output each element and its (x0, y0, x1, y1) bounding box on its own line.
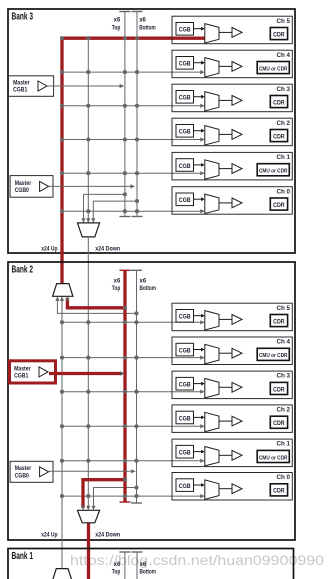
label x24 Up bank2 (41, 532, 57, 538)
svg-text:x6: x6 (114, 278, 121, 284)
label x6 Top bank2 (112, 278, 121, 292)
svg-text:CMU or CDR: CMU or CDR (259, 455, 288, 461)
wire CGB-to-mux Ch 5 bank2 (194, 314, 205, 318)
svg-text:CGB: CGB (179, 62, 192, 68)
wire x6top-to-downmux (red) bank2 (81, 480, 125, 511)
wire CGB-to-mux Ch 2 bank3 (194, 129, 205, 133)
svg-text:x6: x6 (139, 18, 146, 24)
channel Ch 3 bank2 box (172, 371, 292, 399)
label Ch 4 bank3 (277, 52, 291, 59)
svg-text:Ch 5: Ch 5 (277, 18, 291, 25)
wire x6 feed Ch 1 bank3 (62, 171, 205, 175)
CGB Ch 4 bank3 (176, 57, 194, 70)
wire CGB-to-mux Ch 4 bank2 (194, 348, 205, 352)
wire x6 Bottom bank1 (132, 552, 143, 579)
wire x6 feed Ch 0 bank3 (62, 209, 205, 213)
svg-text:CGB: CGB (179, 416, 192, 422)
channel Ch 4 bank3 box (172, 50, 292, 77)
svg-text:CMU or CDR: CMU or CDR (259, 169, 288, 175)
label x6 Bottom bank3 (139, 18, 156, 32)
channel Ch 1 bank3 box (172, 152, 292, 180)
wire mux-to-buffer Ch 0 bank2 (219, 488, 232, 490)
svg-text:https://blog.csdn.net/huan0990: https://blog.csdn.net/huan09900990 (70, 552, 324, 568)
svg-text:Master: Master (14, 365, 31, 372)
CGB Ch 1 bank2 (176, 445, 194, 458)
mux Ch 1 bank2 (205, 447, 219, 466)
svg-text:Ch 4: Ch 4 (277, 339, 291, 346)
buffer Ch 2 bank2 (232, 416, 242, 426)
CDR Ch 5 bank3 (270, 28, 287, 40)
svg-text:CGB: CGB (179, 198, 192, 204)
CGB Ch 1 bank3 (176, 159, 194, 172)
channel Ch 0 bank3 box (172, 187, 292, 215)
wire x6 feed Ch 2 bank3 (62, 137, 205, 141)
wire x24 down feeder bank3 (86, 38, 90, 223)
CDR Ch 0 bank3 (270, 198, 287, 210)
svg-text:Ch 3: Ch 3 (277, 373, 291, 380)
buffer Ch 4 bank3 (232, 62, 242, 72)
svg-text:Master: Master (15, 180, 32, 187)
svg-text:Bottom: Bottom (139, 26, 156, 32)
bank 2 title (12, 264, 34, 275)
label Ch 1 bank3 (277, 154, 291, 161)
svg-text:Top: Top (112, 286, 121, 292)
wire x6 feed Ch 2 bank2 (62, 424, 205, 428)
mux Ch 2 bank3 (205, 126, 219, 145)
channel Ch 0 bank2 box (172, 473, 292, 501)
wire CGB-to-mux Ch 4 bank3 (194, 61, 205, 65)
wire mux-to-buffer Ch 4 bank3 (219, 65, 232, 67)
svg-text:CGB1: CGB1 (13, 87, 28, 94)
buffer Ch 1 bank2 (232, 450, 242, 460)
svg-text:CGB: CGB (179, 28, 192, 34)
channel Ch 2 bank3 box (172, 118, 292, 146)
buffer Ch 2 bank3 (232, 130, 242, 140)
svg-text:Ch 2: Ch 2 (277, 407, 291, 414)
svg-text:CDR: CDR (273, 421, 285, 427)
bank 1 title (12, 551, 34, 562)
mux x24 up bank1 (clipped) (52, 569, 72, 579)
svg-text:Bottom: Bottom (140, 286, 157, 292)
svg-text:Top: Top (112, 570, 121, 576)
label x24 Down bank3 (95, 246, 120, 252)
svg-text:x24 Down: x24 Down (95, 246, 120, 252)
svg-text:CDR: CDR (273, 134, 285, 140)
mux Ch 5 bank2 (205, 311, 219, 330)
mux Ch 5 bank3 (205, 24, 219, 43)
channel Ch 4 bank2 box (172, 337, 292, 365)
mux Ch 4 bank3 (205, 58, 219, 77)
svg-text:CMU or CDR: CMU or CDR (259, 353, 288, 359)
wire mux-to-buffer Ch 3 bank3 (219, 99, 232, 101)
svg-text:CGB: CGB (179, 164, 192, 170)
svg-text:x24 Up: x24 Up (41, 246, 57, 252)
label x24 Up bank3 (41, 246, 57, 252)
mux Ch 3 bank3 (205, 92, 219, 111)
buffer Ch 0 bank2 (232, 484, 242, 494)
CDR Ch 3 bank2 (270, 382, 287, 394)
svg-text:CDR: CDR (273, 32, 285, 38)
svg-text:CGB: CGB (179, 451, 192, 457)
wire x6bottom-to-upmux bank2 (55, 296, 136, 313)
CGB Ch 3 bank3 (176, 91, 194, 104)
svg-text:x24 Up: x24 Up (41, 532, 57, 538)
mux Ch 0 bank3 (205, 194, 219, 213)
mux x24 up bank2 (53, 284, 73, 297)
wire mux-to-buffer Ch 3 bank2 (219, 386, 232, 388)
CDR Ch 2 bank2 (270, 416, 287, 428)
CGB Ch 2 bank2 (176, 411, 194, 424)
mux Ch 3 bank2 (205, 379, 219, 398)
wire x6 feed Ch 1 bank2 (62, 459, 205, 463)
buffer Ch 3 bank3 (232, 96, 242, 106)
wire x6 feed Ch 3 bank3 (62, 104, 205, 108)
svg-text:x6: x6 (114, 18, 121, 24)
mux Ch 2 bank2 (205, 412, 219, 431)
wire CGB-to-mux Ch 0 bank2 (194, 483, 205, 487)
svg-text:CDR: CDR (273, 489, 285, 495)
label Ch 0 bank3 (277, 188, 291, 195)
wire x24 down output bank3-to-bank2 (86, 237, 90, 510)
mux Ch 4 bank2 (205, 344, 219, 363)
svg-text:CGB1: CGB1 (14, 373, 29, 380)
svg-text:CDR: CDR (273, 387, 285, 393)
CMU or CDR Ch 4 bank2 (257, 348, 289, 360)
CGB Ch 2 bank3 (176, 125, 194, 138)
CGB Ch 4 bank2 (176, 343, 194, 356)
buffer Ch 5 bank3 (232, 28, 242, 38)
CDR Ch 2 bank3 (270, 130, 287, 142)
wire CGB0 arrow bank2 (49, 469, 136, 473)
wire CGB0 arrow bank3 (49, 184, 135, 188)
CDR Ch 3 bank3 (270, 96, 287, 108)
svg-text:Ch 4: Ch 4 (277, 52, 291, 59)
wire x6 feed Ch 3 bank2 (62, 390, 205, 394)
wire x6 Bottom bank3 (132, 12, 143, 217)
wire x24 up feeder bank2-to-bank1 (60, 296, 64, 568)
svg-text:CGB: CGB (179, 315, 192, 321)
wire mux-to-buffer Ch 2 bank3 (219, 133, 232, 135)
CDR Ch 0 bank2 (270, 484, 287, 496)
label Ch 5 bank3 (277, 18, 291, 25)
master CGB1 bank2 (red highlighted) (10, 361, 56, 383)
wire CGB-to-mux Ch 3 bank3 (194, 95, 205, 99)
svg-text:Ch 3: Ch 3 (277, 86, 291, 93)
junction dots bank3 (60, 36, 139, 213)
wire x6 feed Ch 4 bank3 (62, 70, 205, 74)
svg-text:x24 Down: x24 Down (95, 532, 120, 538)
mux x24 down bank2 (78, 510, 100, 523)
CGB Ch 0 bank2 (176, 479, 194, 492)
wire x6 Bottom bank2 (131, 270, 142, 503)
CGB Ch 0 bank3 (176, 193, 194, 206)
buffer Ch 3 bank2 (232, 382, 242, 392)
channel Ch 3 bank3 box (172, 84, 292, 112)
wire x24 down output (red) bank2-to-bank1 (87, 523, 90, 579)
junction dots bank2 (60, 306, 139, 498)
wire x6 feed Ch 0 bank2 (62, 494, 205, 498)
svg-text:Bank 1: Bank 1 (12, 551, 34, 562)
label Ch 2 bank3 (277, 120, 291, 127)
bank 1 border (8, 549, 294, 579)
wire x6top-to-upmux (red) bank2 (65, 296, 125, 308)
wire CGB-to-mux Ch 0 bank3 (194, 197, 205, 201)
wire CGB-to-mux Ch 5 bank3 (194, 27, 205, 31)
svg-text:CDR: CDR (273, 319, 285, 325)
svg-text:x6: x6 (114, 562, 121, 568)
svg-text:CDR: CDR (273, 100, 285, 106)
buffer Ch 0 bank3 (232, 198, 242, 208)
CGB Ch 5 bank2 (176, 310, 194, 323)
label Ch 1 bank2 (277, 441, 291, 448)
wire x6 Top bank1 (119, 552, 130, 579)
wire x6 Top (red highlighted) bank2 (120, 270, 131, 502)
bank 3 border (8, 9, 295, 253)
wire x6 feed Ch 5 bank2 (62, 320, 205, 324)
wire mux-to-buffer Ch 1 bank3 (219, 168, 232, 170)
watermark (70, 552, 324, 568)
svg-text:Bottom: Bottom (140, 570, 157, 576)
wire x6 feed Ch 4 bank2 (62, 356, 205, 360)
svg-text:Ch 5: Ch 5 (277, 305, 291, 312)
buffer Ch 4 bank2 (232, 348, 242, 358)
svg-text:CGB: CGB (179, 96, 192, 102)
svg-text:CMU or CDR: CMU or CDR (259, 66, 288, 72)
svg-text:Ch 1: Ch 1 (277, 441, 291, 448)
wire x6top-to-mux bank3 (81, 194, 125, 223)
label Ch 2 bank2 (277, 407, 291, 414)
label x6 Bottom bank2 (140, 278, 157, 292)
CMU or CDR Ch 1 bank2 (257, 450, 289, 462)
svg-text:CGB: CGB (179, 383, 192, 389)
label Ch 3 bank2 (277, 373, 291, 380)
label Ch 3 bank3 (277, 86, 291, 93)
svg-text:Ch 2: Ch 2 (277, 120, 291, 127)
svg-text:x6: x6 (140, 278, 147, 284)
svg-text:Master: Master (15, 465, 32, 472)
label Ch 0 bank2 (277, 474, 291, 481)
svg-text:Bank 3: Bank 3 (12, 11, 34, 22)
svg-text:CGB0: CGB0 (15, 472, 30, 479)
svg-text:CGB0: CGB0 (15, 187, 30, 194)
svg-text:Ch 0: Ch 0 (277, 188, 291, 195)
label x24 Down bank2 (95, 532, 120, 538)
svg-text:CGB: CGB (179, 130, 192, 136)
wire x6bottom-to-mux bank3 (91, 201, 137, 223)
svg-text:Ch 1: Ch 1 (277, 154, 291, 161)
svg-text:CDR: CDR (273, 203, 285, 209)
channel Ch 2 bank2 box (172, 405, 292, 433)
label Ch 4 bank2 (277, 339, 291, 346)
wire mux-to-buffer Ch 5 bank3 (219, 31, 232, 33)
wire CGB1 arrow (red) bank2 (49, 371, 125, 375)
CMU or CDR Ch 1 bank3 (257, 164, 289, 176)
channel Ch 1 bank2 box (172, 439, 292, 467)
svg-text:Master: Master (13, 80, 30, 87)
svg-text:Bank 2: Bank 2 (12, 264, 34, 275)
wire x6bottom-to-downmux bank2 (91, 488, 136, 511)
label x6 Top bank3 (112, 18, 121, 32)
wire x24 up (red highlighted) bank3 (62, 38, 205, 283)
mux x24 down bank3 (78, 223, 100, 237)
CGB Ch 3 bank2 (176, 377, 194, 390)
master CGB0 bank3 (10, 176, 53, 198)
channel Ch 5 bank3 box (172, 16, 292, 44)
mux Ch 1 bank3 (205, 160, 219, 179)
svg-text:CGB: CGB (179, 348, 192, 354)
wire mux-to-buffer Ch 2 bank2 (219, 420, 232, 422)
wire CGB-to-mux Ch 1 bank2 (194, 450, 205, 454)
svg-text:Ch 0: Ch 0 (277, 474, 291, 481)
mux Ch 0 bank2 (205, 480, 219, 499)
CDR Ch 5 bank2 (270, 315, 287, 327)
wire mux-to-buffer Ch 4 bank2 (219, 352, 232, 354)
wire mux-to-buffer Ch 5 bank2 (219, 318, 232, 320)
wire CGB-to-mux Ch 2 bank2 (194, 416, 205, 420)
label x6 Bottom bank1 (140, 562, 157, 576)
bank 2 border (8, 262, 295, 540)
buffer Ch 5 bank2 (232, 315, 242, 325)
svg-text:CGB: CGB (179, 484, 192, 490)
label x6 Top bank1 (112, 562, 121, 576)
CMU or CDR Ch 4 bank3 (257, 62, 289, 74)
buffer Ch 1 bank3 (232, 164, 242, 174)
master CGB0 bank2 (10, 461, 53, 482)
svg-text:Top: Top (112, 26, 121, 32)
channel Ch 5 bank2 box (172, 303, 292, 331)
CGB Ch 5 bank3 (176, 23, 194, 36)
wire mux-to-buffer Ch 1 bank2 (219, 454, 232, 456)
wire CGB-to-mux Ch 3 bank2 (194, 382, 205, 386)
wire CGB-to-mux Ch 1 bank3 (194, 163, 205, 167)
label Ch 5 bank2 (277, 305, 291, 312)
wire x6 Top bank3 (119, 12, 130, 217)
master CGB1 bank3 (9, 76, 54, 97)
wire mux-to-buffer Ch 0 bank3 (219, 202, 232, 204)
svg-text:x6: x6 (140, 562, 147, 568)
wire CGB1 arrow bank3 (47, 84, 124, 88)
bank 3 title (12, 11, 34, 22)
